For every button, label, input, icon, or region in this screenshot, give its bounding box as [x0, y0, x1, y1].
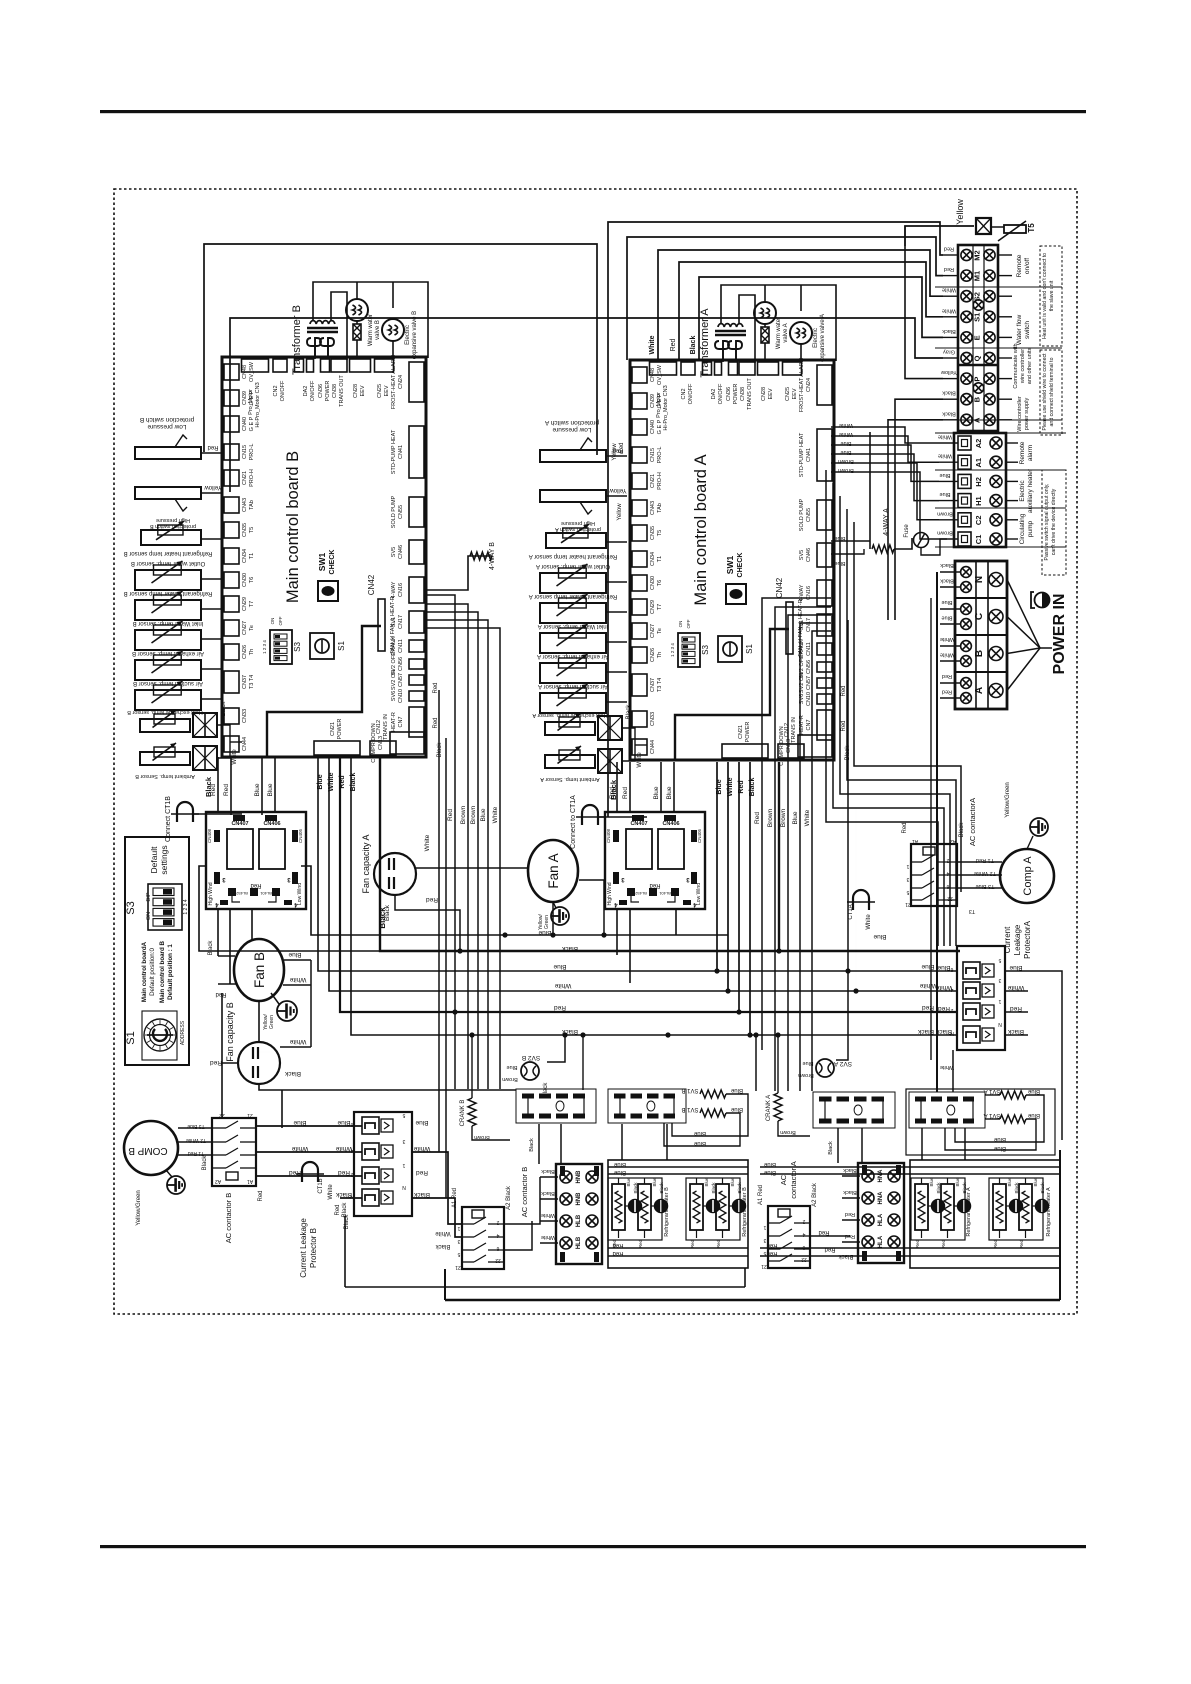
svg-text:CN33: CN33 — [650, 712, 656, 726]
svg-text:CN56: CN56 — [398, 657, 404, 671]
relay CN407 A — [626, 829, 652, 869]
board B top pin CN28 — [350, 359, 371, 372]
svg-text:White: White — [804, 809, 811, 826]
svg-text:EEV: EEV — [792, 388, 798, 399]
board B left pin CN43 — [224, 497, 239, 513]
power terminal B — [955, 634, 1007, 636]
warm water valve A motor — [754, 302, 776, 324]
wires fan A to bus — [550, 932, 555, 937]
svg-text:Current: Current — [1003, 926, 1012, 953]
refrigerant heater resistor A — [993, 1184, 1006, 1230]
contactor A2 coil — [778, 1209, 790, 1217]
svg-text:Blue: Blue — [1009, 964, 1022, 971]
board A left pin CN44 — [632, 739, 647, 755]
svg-text:Red: Red — [609, 787, 616, 799]
heater terminal HLB — [560, 1215, 572, 1227]
svg-text:HLA: HLA — [878, 1213, 884, 1226]
board B right pin CN57 — [409, 675, 424, 685]
svg-text:White: White — [424, 834, 431, 851]
svg-text:Default: Default — [149, 846, 159, 874]
thermistor: Outlet water temp. sensor A — [540, 573, 606, 593]
svg-text:DA2: DA2 — [711, 389, 717, 400]
wire 4-WAY A — [869, 432, 871, 549]
comp A ground — [1030, 818, 1048, 836]
high pressure protection switch B — [135, 487, 201, 499]
svg-text:Brown: Brown — [474, 1134, 490, 1140]
resistor SV1 B upper — [700, 1090, 726, 1098]
svg-text:T1 Red: T1 Red — [976, 857, 994, 863]
svg-text:alarm: alarm — [1027, 445, 1034, 461]
svg-text:TRANS OUT: TRANS OUT — [339, 374, 345, 406]
svg-text:Red: Red — [754, 812, 761, 824]
power in converging wires — [1007, 580, 1040, 649]
svg-text:Blue: Blue — [653, 786, 660, 799]
svg-text:Red: Red — [1010, 1005, 1022, 1012]
board B left pin CN15 — [224, 444, 239, 460]
svg-text:CN42: CN42 — [775, 577, 784, 598]
thermistor: Air suction temp. sensor A — [540, 693, 606, 713]
heater ground B — [707, 1200, 720, 1213]
svg-text:HLB: HLB — [576, 1214, 582, 1227]
svg-text:1 2 3 4: 1 2 3 4 — [262, 640, 267, 654]
svg-text:White: White — [289, 1038, 306, 1045]
svg-text:22: 22 — [801, 1256, 807, 1262]
comp A motor — [1000, 849, 1054, 903]
board B top pin CN2 — [273, 359, 287, 372]
svg-text:Fan A: Fan A — [546, 853, 561, 888]
red wire with CT1B loop — [256, 1175, 362, 1177]
svg-text:White: White — [541, 1212, 555, 1218]
svg-text:5: 5 — [998, 957, 1001, 963]
high pressure protection switch A — [540, 490, 606, 502]
thermistor: Air suction temp. sensor B — [135, 690, 201, 710]
board B top pin CN25 — [375, 359, 394, 372]
wires contactor A to HNA — [810, 1235, 850, 1237]
svg-text:CN16: CN16 — [398, 583, 404, 597]
dash separators strip1 — [935, 286, 1062, 288]
svg-text:HLA: HLA — [878, 1235, 884, 1248]
svg-text:Blue: Blue — [993, 1136, 1006, 1142]
svg-text:Outlet water temp. sensor B: Outlet water temp. sensor B — [131, 560, 205, 566]
wire CT1A black loop to strip M2 — [608, 222, 943, 817]
fan speed relay box A — [605, 812, 705, 909]
wire fan relay B pin to contactor — [221, 993, 223, 1119]
comp B ground — [167, 1176, 185, 1194]
sensor connector wires A — [622, 728, 635, 761]
svg-text:Communicate with: Communicate with — [1013, 343, 1019, 388]
power in ground symbol — [1035, 593, 1050, 608]
svg-text:T3: T3 — [969, 908, 975, 914]
contactor A coil — [923, 847, 935, 855]
svg-text:CN33: CN33 — [242, 709, 248, 723]
svg-text:CN57: CN57 — [398, 673, 404, 687]
thermistor: Refrigerant heater temp sensor A — [546, 533, 606, 548]
wires board A to fan relay box A — [616, 762, 618, 812]
bus wire blue upper — [301, 866, 728, 935]
svg-text:Remote: Remote — [1019, 441, 1026, 464]
svg-text:Current Leakage: Current Leakage — [299, 1218, 308, 1278]
fan speed relay box B — [206, 812, 306, 909]
relay CN406 A — [658, 829, 684, 869]
heater A bottom wires — [760, 1247, 1060, 1249]
svg-text:HEAT-R: HEAT-R — [391, 712, 397, 732]
svg-text:Pro_Motor: Pro_Motor — [656, 392, 662, 418]
svg-text:Black: Black — [749, 778, 756, 797]
svg-text:FAN_H FAN_L HEAT-R: FAN_H FAN_L HEAT-R — [798, 599, 804, 656]
svg-text:Red: Red — [433, 682, 439, 693]
svg-text:POWER: POWER — [745, 722, 751, 743]
heater ground A — [958, 1200, 971, 1213]
svg-text:Red: Red — [738, 780, 745, 793]
svg-text:Red: Red — [335, 1204, 341, 1215]
note box use shield wire — [1040, 350, 1062, 435]
svg-text:Black: Black — [626, 704, 632, 720]
board A top pin CN36 — [729, 362, 738, 375]
svg-text:HNA: HNA — [878, 1191, 884, 1205]
wires SV1 A loop — [955, 1095, 1044, 1142]
svg-text:Red: Red — [766, 1242, 777, 1248]
leakage breaker A Red — [963, 1003, 980, 1020]
board A left pin CN27 — [632, 623, 647, 639]
svg-text:Red: Red — [433, 717, 439, 728]
svg-text:FROST-HEAT ALARM: FROST-HEAT ALARM — [391, 354, 397, 409]
wires SV1 B loop — [672, 1094, 748, 1136]
heater B bottom wires — [608, 1247, 748, 1249]
power terminal N — [955, 560, 1007, 562]
svg-text:C1: C1 — [974, 535, 983, 545]
svg-text:Red: Red — [649, 882, 660, 888]
svg-text:ON/OFF: ON/OFF — [718, 383, 724, 404]
power feed trunk wires left — [936, 572, 938, 1092]
board A right pin CN41 — [817, 429, 832, 481]
svg-text:Yellow/Green: Yellow/Green — [136, 1190, 142, 1225]
svg-text:Red: Red — [223, 784, 230, 796]
board B switch SW1 CHECK — [318, 581, 338, 601]
svg-text:Black: Black — [959, 822, 965, 838]
svg-text:pump: pump — [1027, 520, 1034, 537]
svg-text:SOLD PUMP: SOLD PUMP — [391, 495, 397, 528]
svg-text:CN43: CN43 — [650, 501, 656, 515]
board B left pin CN37 — [224, 671, 239, 693]
wires contactor B to leakage protector B — [256, 1125, 362, 1127]
svg-text:M2: M2 — [973, 250, 982, 260]
svg-text:CN406: CN406 — [662, 821, 679, 827]
svg-text:Low pressure: Low pressure — [147, 423, 186, 430]
black wire from relay B high wind pin — [199, 866, 379, 951]
board A right pin CN10 — [817, 694, 832, 704]
svg-text:Black: Black — [413, 1191, 430, 1198]
svg-text:Blue: Blue — [288, 951, 301, 958]
svg-text:High pressure: High pressure — [561, 520, 595, 526]
warm water valve B body — [353, 324, 361, 340]
board B left pin CN26 — [224, 644, 239, 660]
svg-text:Red: Red — [824, 1246, 835, 1252]
svg-text:CN36: CN36 — [726, 387, 732, 401]
fan B motor — [234, 939, 284, 1001]
svg-text:CN46: CN46 — [806, 548, 812, 562]
terminal strip 1 (M2..A) outline — [958, 245, 998, 431]
svg-text:1: 1 — [906, 863, 909, 869]
svg-text:2: 2 — [496, 1219, 499, 1225]
svg-text:S1: S1 — [125, 1031, 137, 1044]
svg-text:Refrigerant heater temp sensor: Refrigerant heater temp sensor B — [124, 550, 213, 556]
board B left pin CN35 — [224, 522, 239, 538]
transformer A secondary leads — [722, 350, 724, 362]
svg-text:Te: Te — [249, 625, 255, 631]
heater B top wires — [608, 1166, 748, 1168]
svg-text:Transformer B: Transformer B — [291, 305, 303, 375]
svg-text:White: White — [938, 453, 952, 459]
heater terminal block HNB — [556, 1164, 602, 1264]
svg-text:High Wind: High Wind — [607, 882, 613, 905]
contactor B coil — [226, 1172, 238, 1180]
svg-text:White: White — [335, 1145, 352, 1152]
svg-text:White: White — [1007, 984, 1024, 991]
svg-text:6: 6 — [496, 1245, 499, 1251]
svg-text:2: 2 — [946, 857, 949, 863]
svg-text:4-WAY A: 4-WAY A — [883, 508, 890, 536]
fan B wire stubs right — [284, 959, 311, 961]
svg-text:Red: Red — [416, 1169, 428, 1176]
bottom rule line — [100, 1545, 1086, 1548]
svg-text:White: White — [935, 984, 952, 991]
svg-text:Yellow: Yellow — [204, 484, 222, 490]
relay CN406 B — [259, 829, 285, 869]
bottom thick return wire — [445, 1299, 1060, 1301]
svg-text:T3 Blue: T3 Blue — [976, 883, 995, 889]
svg-text:Th: Th — [249, 649, 255, 655]
thermistor: Air exhaust temp. sensor A — [540, 663, 606, 683]
svg-text:4: 4 — [496, 1232, 499, 1238]
svg-text:Blue: Blue — [792, 811, 799, 824]
svg-text:CN26: CN26 — [242, 645, 248, 659]
heater B pair sub-rects — [608, 1178, 662, 1240]
svg-text:Circulating: Circulating — [1019, 513, 1026, 544]
fan B ground Yellow/Green — [277, 1001, 297, 1021]
svg-text:Brown: Brown — [767, 808, 774, 827]
svg-text:Refrigerant heater A: Refrigerant heater A — [1046, 1187, 1052, 1237]
wire fan B to capacitor B — [258, 1001, 260, 1042]
svg-text:T6: T6 — [249, 577, 255, 583]
svg-text:Red: Red — [426, 896, 438, 903]
svg-text:White: White — [413, 1145, 430, 1152]
svg-text:ADDRESS: ADDRESS — [180, 1020, 186, 1045]
svg-text:Water flow: Water flow — [1016, 314, 1023, 345]
svg-text:White: White — [541, 1234, 555, 1240]
fan capacity B wires — [280, 1046, 311, 1048]
svg-text:4-WAY: 4-WAY — [799, 584, 805, 601]
svg-text:ON: ON — [678, 621, 683, 628]
svg-text:CN10: CN10 — [806, 692, 812, 706]
svg-text:1: 1 — [457, 1225, 460, 1231]
strip1 block split — [958, 364, 998, 367]
board A top pin header — [703, 362, 712, 375]
svg-text:switch: switch — [1024, 321, 1031, 339]
wire bundle board B right side down — [426, 595, 455, 1089]
svg-text:CN407: CN407 — [630, 821, 647, 827]
wire red loop to strip S1 — [679, 262, 943, 360]
svg-text:A1: A1 — [247, 1178, 253, 1184]
svg-text:CN408: CN408 — [606, 829, 611, 844]
board A left pin CN29 — [632, 599, 647, 615]
svg-text:CN44: CN44 — [242, 737, 248, 751]
svg-text:T3 Blue: T3 Blue — [187, 1123, 204, 1129]
svg-text:High Wind: High Wind — [208, 882, 214, 905]
svg-text:CT1A: CT1A — [848, 904, 854, 919]
svg-text:White: White — [938, 434, 952, 440]
svg-text:White: White — [940, 636, 954, 642]
svg-text:AC contactor B: AC contactor B — [520, 1167, 529, 1217]
svg-text:White: White — [839, 422, 853, 428]
svg-text:S1: S1 — [337, 641, 346, 651]
svg-text:Black: Black — [1007, 1028, 1024, 1035]
board A top pin CN2 — [681, 362, 695, 375]
svg-text:BL452: BL452 — [235, 891, 247, 896]
svg-text:Black: Black — [342, 1202, 348, 1218]
svg-text:Red: Red — [942, 673, 952, 679]
svg-text:Red: Red — [210, 784, 217, 796]
svg-text:Blue: Blue — [317, 774, 324, 789]
HNA corner pins — [862, 1165, 867, 1175]
svg-text:Please use shield wire to conn: Please use shield wire to connect — [1042, 353, 1048, 431]
white feed into block A2 — [952, 1050, 954, 1092]
board A right pin CN57 — [817, 678, 832, 688]
S3 dip switch graphic — [148, 884, 182, 930]
svg-text:Blue: Blue — [1027, 1088, 1040, 1094]
CT1A symbol — [853, 890, 869, 910]
svg-text:Brown: Brown — [460, 805, 467, 824]
svg-text:A1: A1 — [974, 458, 983, 468]
svg-text:STD-PUMP HEAT: STD-PUMP HEAT — [799, 432, 805, 477]
svg-text:Th: Th — [657, 652, 663, 658]
svg-text:PRO-L: PRO-L — [249, 444, 255, 461]
svg-text:CN34: CN34 — [242, 549, 248, 563]
refrigerant heater resistor B — [638, 1184, 651, 1230]
ambient sensor A connector — [598, 749, 622, 773]
svg-text:White: White — [727, 777, 734, 796]
svg-text:White: White — [637, 752, 643, 768]
svg-text:CN405: CN405 — [697, 829, 702, 844]
black wire into protector B — [340, 1197, 362, 1199]
svg-text:T3 T4: T3 T4 — [657, 678, 663, 692]
board B top pin CN36 — [321, 359, 330, 372]
svg-text:Black: Black — [917, 1028, 934, 1035]
svg-text:CN56: CN56 — [806, 660, 812, 674]
svg-text:Blue: Blue — [834, 560, 845, 566]
svg-text:CRANK A: CRANK A — [766, 1095, 772, 1121]
svg-text:BL452: BL452 — [634, 891, 646, 896]
svg-text:S1: S1 — [973, 313, 982, 322]
terminal S1 — [961, 311, 972, 322]
svg-text:FAN_H FAN_L HEAT-R: FAN_H FAN_L HEAT-R — [390, 596, 396, 653]
resistor CRANK B — [468, 1098, 476, 1126]
transformer B core — [307, 327, 338, 330]
svg-text:Connect to CT1A: Connect to CT1A — [570, 795, 577, 849]
svg-text:3: 3 — [906, 876, 909, 882]
board A bottom pin CN12 TRANS IN — [778, 744, 804, 758]
CT1B current transformer — [302, 1162, 318, 1182]
svg-text:Red: Red — [339, 775, 346, 788]
svg-text:Black: Black — [690, 336, 697, 355]
svg-text:POWER: POWER — [733, 384, 739, 405]
fan B wire stubs left — [218, 955, 235, 957]
svg-text:Blue: Blue — [941, 599, 952, 605]
svg-text:Warm water: Warm water — [776, 317, 782, 349]
svg-text:Green: Green — [544, 915, 550, 929]
svg-text:Leakage: Leakage — [1013, 924, 1022, 955]
svg-text:Red: Red — [818, 1229, 829, 1235]
svg-text:CN405: CN405 — [298, 829, 303, 844]
board A left pin CN33 — [632, 711, 647, 727]
board B right pin CN17 — [409, 611, 424, 633]
relay contact block B2 — [608, 1089, 686, 1123]
leakage breaker A Blue — [963, 962, 980, 979]
S1 rotary switch — [142, 1011, 177, 1060]
svg-text:POWER IN: POWER IN — [1051, 594, 1068, 675]
svg-text:S1: S1 — [745, 644, 754, 654]
svg-text:A2: A2 — [215, 1178, 221, 1184]
svg-text:ON/OFF: ON/OFF — [688, 383, 694, 404]
svg-text:Main control board B: Main control board B — [284, 451, 302, 603]
board A switch SW1 CHECK — [726, 584, 746, 604]
svg-text:Black: Black — [543, 1082, 549, 1098]
svg-text:CN42: CN42 — [367, 574, 376, 595]
svg-text:CN21: CN21 — [738, 725, 744, 739]
wire 4-WAY B — [426, 556, 492, 590]
leakage breaker A White — [963, 982, 980, 999]
svg-text:White: White — [554, 982, 571, 989]
svg-text:CN44: CN44 — [650, 740, 656, 754]
svg-text:CN30: CN30 — [242, 573, 248, 587]
svg-text:White: White — [940, 652, 954, 658]
board A top pin CN28 — [758, 362, 779, 375]
svg-text:Brown: Brown — [937, 530, 953, 536]
svg-text:Green: Green — [269, 1015, 275, 1029]
svg-text:Default position:0: Default position:0 — [149, 948, 156, 996]
svg-text:CHECK: CHECK — [329, 550, 336, 575]
svg-text:Refrigerant heater temp sensor: Refrigerant heater temp sensor B — [124, 590, 213, 596]
svg-text:T6: T6 — [657, 580, 663, 586]
svg-text:Outlet water temp. sensor A: Outlet water temp. sensor A — [536, 563, 610, 569]
transformer B secondary leads — [314, 347, 316, 359]
svg-text:PRO-H: PRO-H — [249, 469, 255, 487]
board B left pin CN21 — [224, 470, 239, 486]
svg-text:A2: A2 — [974, 439, 983, 449]
svg-text:Black: Black — [942, 410, 956, 416]
refrigerant heater resistor B — [690, 1184, 703, 1230]
svg-text:1: 1 — [402, 1162, 405, 1168]
svg-text:ON: ON — [146, 912, 152, 920]
svg-text:Refrigerant heater temp sensor: Refrigerant heater temp sensor A — [529, 593, 617, 599]
svg-text:valve B: valve B — [375, 320, 381, 340]
svg-text:Default position : 1: Default position : 1 — [167, 944, 174, 1000]
board A bottom pin CN21 POWER — [722, 744, 768, 758]
svg-text:H1: H1 — [974, 496, 983, 506]
svg-text:Brown: Brown — [937, 510, 953, 516]
svg-text:HLB: HLB — [576, 1236, 582, 1249]
board B left pin CN29 — [224, 596, 239, 612]
refrigerant heater B group — [608, 1160, 748, 1268]
terminal B — [961, 394, 972, 405]
svg-text:4: 4 — [802, 1231, 805, 1237]
board A left pin CN30 — [632, 575, 647, 591]
svg-text:Black: Black — [843, 1167, 857, 1173]
svg-text:Red: Red — [619, 442, 625, 453]
thermistor: Inlet Water temp. sensor A — [540, 633, 606, 653]
svg-text:Red: Red — [845, 1211, 855, 1217]
svg-text:N: N — [402, 1184, 406, 1190]
AC contactor B box (right) — [462, 1207, 504, 1269]
